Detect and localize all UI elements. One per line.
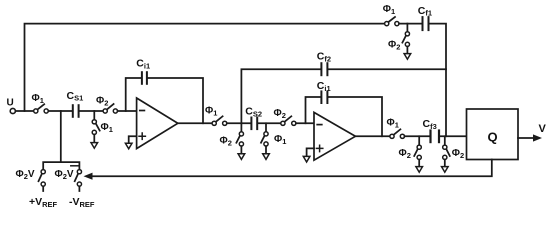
wire Cf1 right to vertical drop into comparator input node <box>430 24 446 137</box>
svg-text:Φ2: Φ2 <box>388 40 400 52</box>
label CS2 <box>245 106 262 119</box>
svg-text:Φ1: Φ1 <box>32 93 44 105</box>
capacitor Cf1 <box>423 17 429 30</box>
ground (op-amp U2 non-inverting input) <box>303 148 314 162</box>
label phi2 (shunt before CS2) <box>220 136 232 148</box>
label U <box>7 98 14 109</box>
wire VREF branch (down from input node) <box>43 111 79 170</box>
label phi2Vbar <box>55 166 79 181</box>
label V <box>539 123 547 135</box>
wire phi2 switch to op-amp U1 inverting input <box>118 110 137 112</box>
ground (below phi1 shunt) <box>91 135 98 149</box>
svg-text:U: U <box>7 98 14 109</box>
capacitor CS2 <box>251 118 257 130</box>
wire U to switch S1 <box>15 110 33 112</box>
label Cf1 <box>418 5 432 18</box>
wire Cf3 to comparator Q <box>440 135 466 137</box>
wire CS1 to switch phi2 <box>80 110 103 112</box>
ground (below phi1 shunt after CS2) <box>263 146 270 159</box>
wire phi1 switch to Cf3 <box>405 135 430 137</box>
label phi2 (series before U2) <box>274 108 286 120</box>
label CS1 <box>67 90 84 103</box>
comparator Q (latched quantizer block) <box>467 109 519 160</box>
label Cf2 <box>317 51 331 64</box>
wire branch down to phi1 shunt (after CS2) <box>265 123 267 132</box>
label Ci1 (integrator 2) <box>317 80 331 93</box>
switch phi1 shunt (vertical, after CS2) <box>261 132 268 146</box>
wire branch down to phi2 shunt (node at Cf2 tap) <box>240 123 242 132</box>
wire op-amp U1 output to switch phi1 <box>178 122 212 124</box>
svg-text:CS2: CS2 <box>245 106 262 119</box>
label +VREF <box>29 196 58 209</box>
label Cf3 <box>423 118 437 131</box>
svg-text:V: V <box>539 123 547 135</box>
svg-text:Φ2V: Φ2V <box>55 169 74 181</box>
wire output V with arrow <box>518 134 542 141</box>
capacitor Ci1 (integrator 1 feedback) <box>126 72 203 123</box>
label phi2 (series switch before U1) <box>96 96 108 108</box>
wire switch S1 to CS1 <box>48 110 71 112</box>
svg-text:Φ2: Φ2 <box>96 96 108 108</box>
switch phi2 shunt (vertical, before Cf3) <box>414 145 421 159</box>
ground (below phi2 shunt) <box>238 146 245 159</box>
label phi2 (top shunt) <box>388 40 400 52</box>
op-amp U2 <box>314 112 355 160</box>
wire phi2 switch to op-amp U2 inverting input <box>296 122 314 124</box>
ground (op-amp U1 non-inverting input) <box>125 136 136 149</box>
label phi2V <box>16 169 35 181</box>
svg-text:+VREF: +VREF <box>29 196 58 209</box>
svg-text:Φ2: Φ2 <box>399 148 411 160</box>
svg-text:Φ2: Φ2 <box>274 108 286 120</box>
svg-text:Ci1: Ci1 <box>317 80 331 93</box>
capacitor CS1 <box>73 105 79 117</box>
ground (below phi2 shunt after Cf3) <box>442 160 449 173</box>
wire branch down to phi2 shunt (before Cf3) <box>418 136 420 145</box>
ground (below phi2 shunt before Cf3) <box>416 160 423 173</box>
svg-text:Cf1: Cf1 <box>418 5 432 18</box>
switch phi2 (series before op-amp U2) <box>281 116 296 125</box>
switch S1 phi1 (series input switch) <box>34 104 49 113</box>
capacitor Ci1 (integrator 2 feedback) <box>306 91 383 136</box>
wire feedback from Q bottom to VREF switches (with arrow) <box>84 160 492 180</box>
switch phi2 (series before op-amp U1) <box>103 104 117 113</box>
wire branch down to phi2 shunt (top) <box>406 24 408 32</box>
label phi2 (shunt after Cf3) <box>452 148 464 160</box>
svg-text:Φ1: Φ1 <box>205 106 217 118</box>
wire CS2 to switch phi2 <box>258 122 281 124</box>
op-amp U1 <box>137 98 178 149</box>
svg-text:Φ1: Φ1 <box>274 134 286 146</box>
wire top feedback (input node up and across to switch) <box>25 24 385 111</box>
svg-text:Q: Q <box>488 130 498 145</box>
label phi1 (top feedback) <box>383 4 395 16</box>
wire top switch to Cf1 <box>399 23 421 25</box>
label -VREF <box>69 196 95 209</box>
switch phi1 (series after U1) <box>212 116 227 125</box>
svg-text:Φ1: Φ1 <box>101 122 113 134</box>
svg-text:Φ1: Φ1 <box>387 117 399 129</box>
label phi2 (shunt before Cf3) <box>399 148 411 160</box>
label phi1 (after U2) <box>387 117 399 129</box>
svg-text:-VREF: -VREF <box>69 196 95 209</box>
node U input terminal <box>10 108 15 113</box>
svg-text:Cf3: Cf3 <box>423 118 437 131</box>
label phi1 (shunt after CS2) <box>274 134 286 146</box>
label Q <box>488 130 498 145</box>
switch phi2 shunt (vertical, after Cf3) <box>443 145 450 159</box>
svg-text:Cf2: Cf2 <box>317 51 331 64</box>
switch phi2Vbar (-VREF) <box>75 170 82 191</box>
switch phi2V (+VREF) <box>39 170 46 191</box>
switch phi1 shunt (vertical, after CS1) <box>92 120 99 135</box>
svg-text:Φ2: Φ2 <box>452 148 464 160</box>
ground (below top phi2 shunt) <box>404 47 411 60</box>
label phi1 (input switch) <box>32 93 44 105</box>
svg-text:CS1: CS1 <box>67 90 84 103</box>
wire branch down to phi2 shunt (after Cf3) <box>444 136 446 145</box>
switch phi1 (top feedback series) <box>385 17 399 26</box>
switch phi1 (series after U2) <box>390 129 405 138</box>
wire branch down to phi1 shunt switch <box>93 111 95 120</box>
label phi1 (after U1) <box>205 106 217 118</box>
svg-text:Φ2: Φ2 <box>220 136 232 148</box>
wire op-amp U2 output to switch phi1 <box>355 135 390 137</box>
svg-text:Φ1: Φ1 <box>383 4 395 16</box>
switch phi2 shunt (vertical, top) <box>402 32 409 47</box>
svg-text:Ci1: Ci1 <box>136 58 150 71</box>
capacitor Cf2 (feed-forward from node X to output node) <box>241 63 446 123</box>
label phi1 (shunt switch) <box>101 122 113 134</box>
label Ci1 <box>136 58 150 71</box>
capacitor Cf3 <box>431 131 440 143</box>
svg-text:Φ2V: Φ2V <box>16 169 35 181</box>
wire phi1 switch to CS2 <box>227 122 250 124</box>
switch phi2 shunt (vertical, before CS2) <box>236 132 243 146</box>
